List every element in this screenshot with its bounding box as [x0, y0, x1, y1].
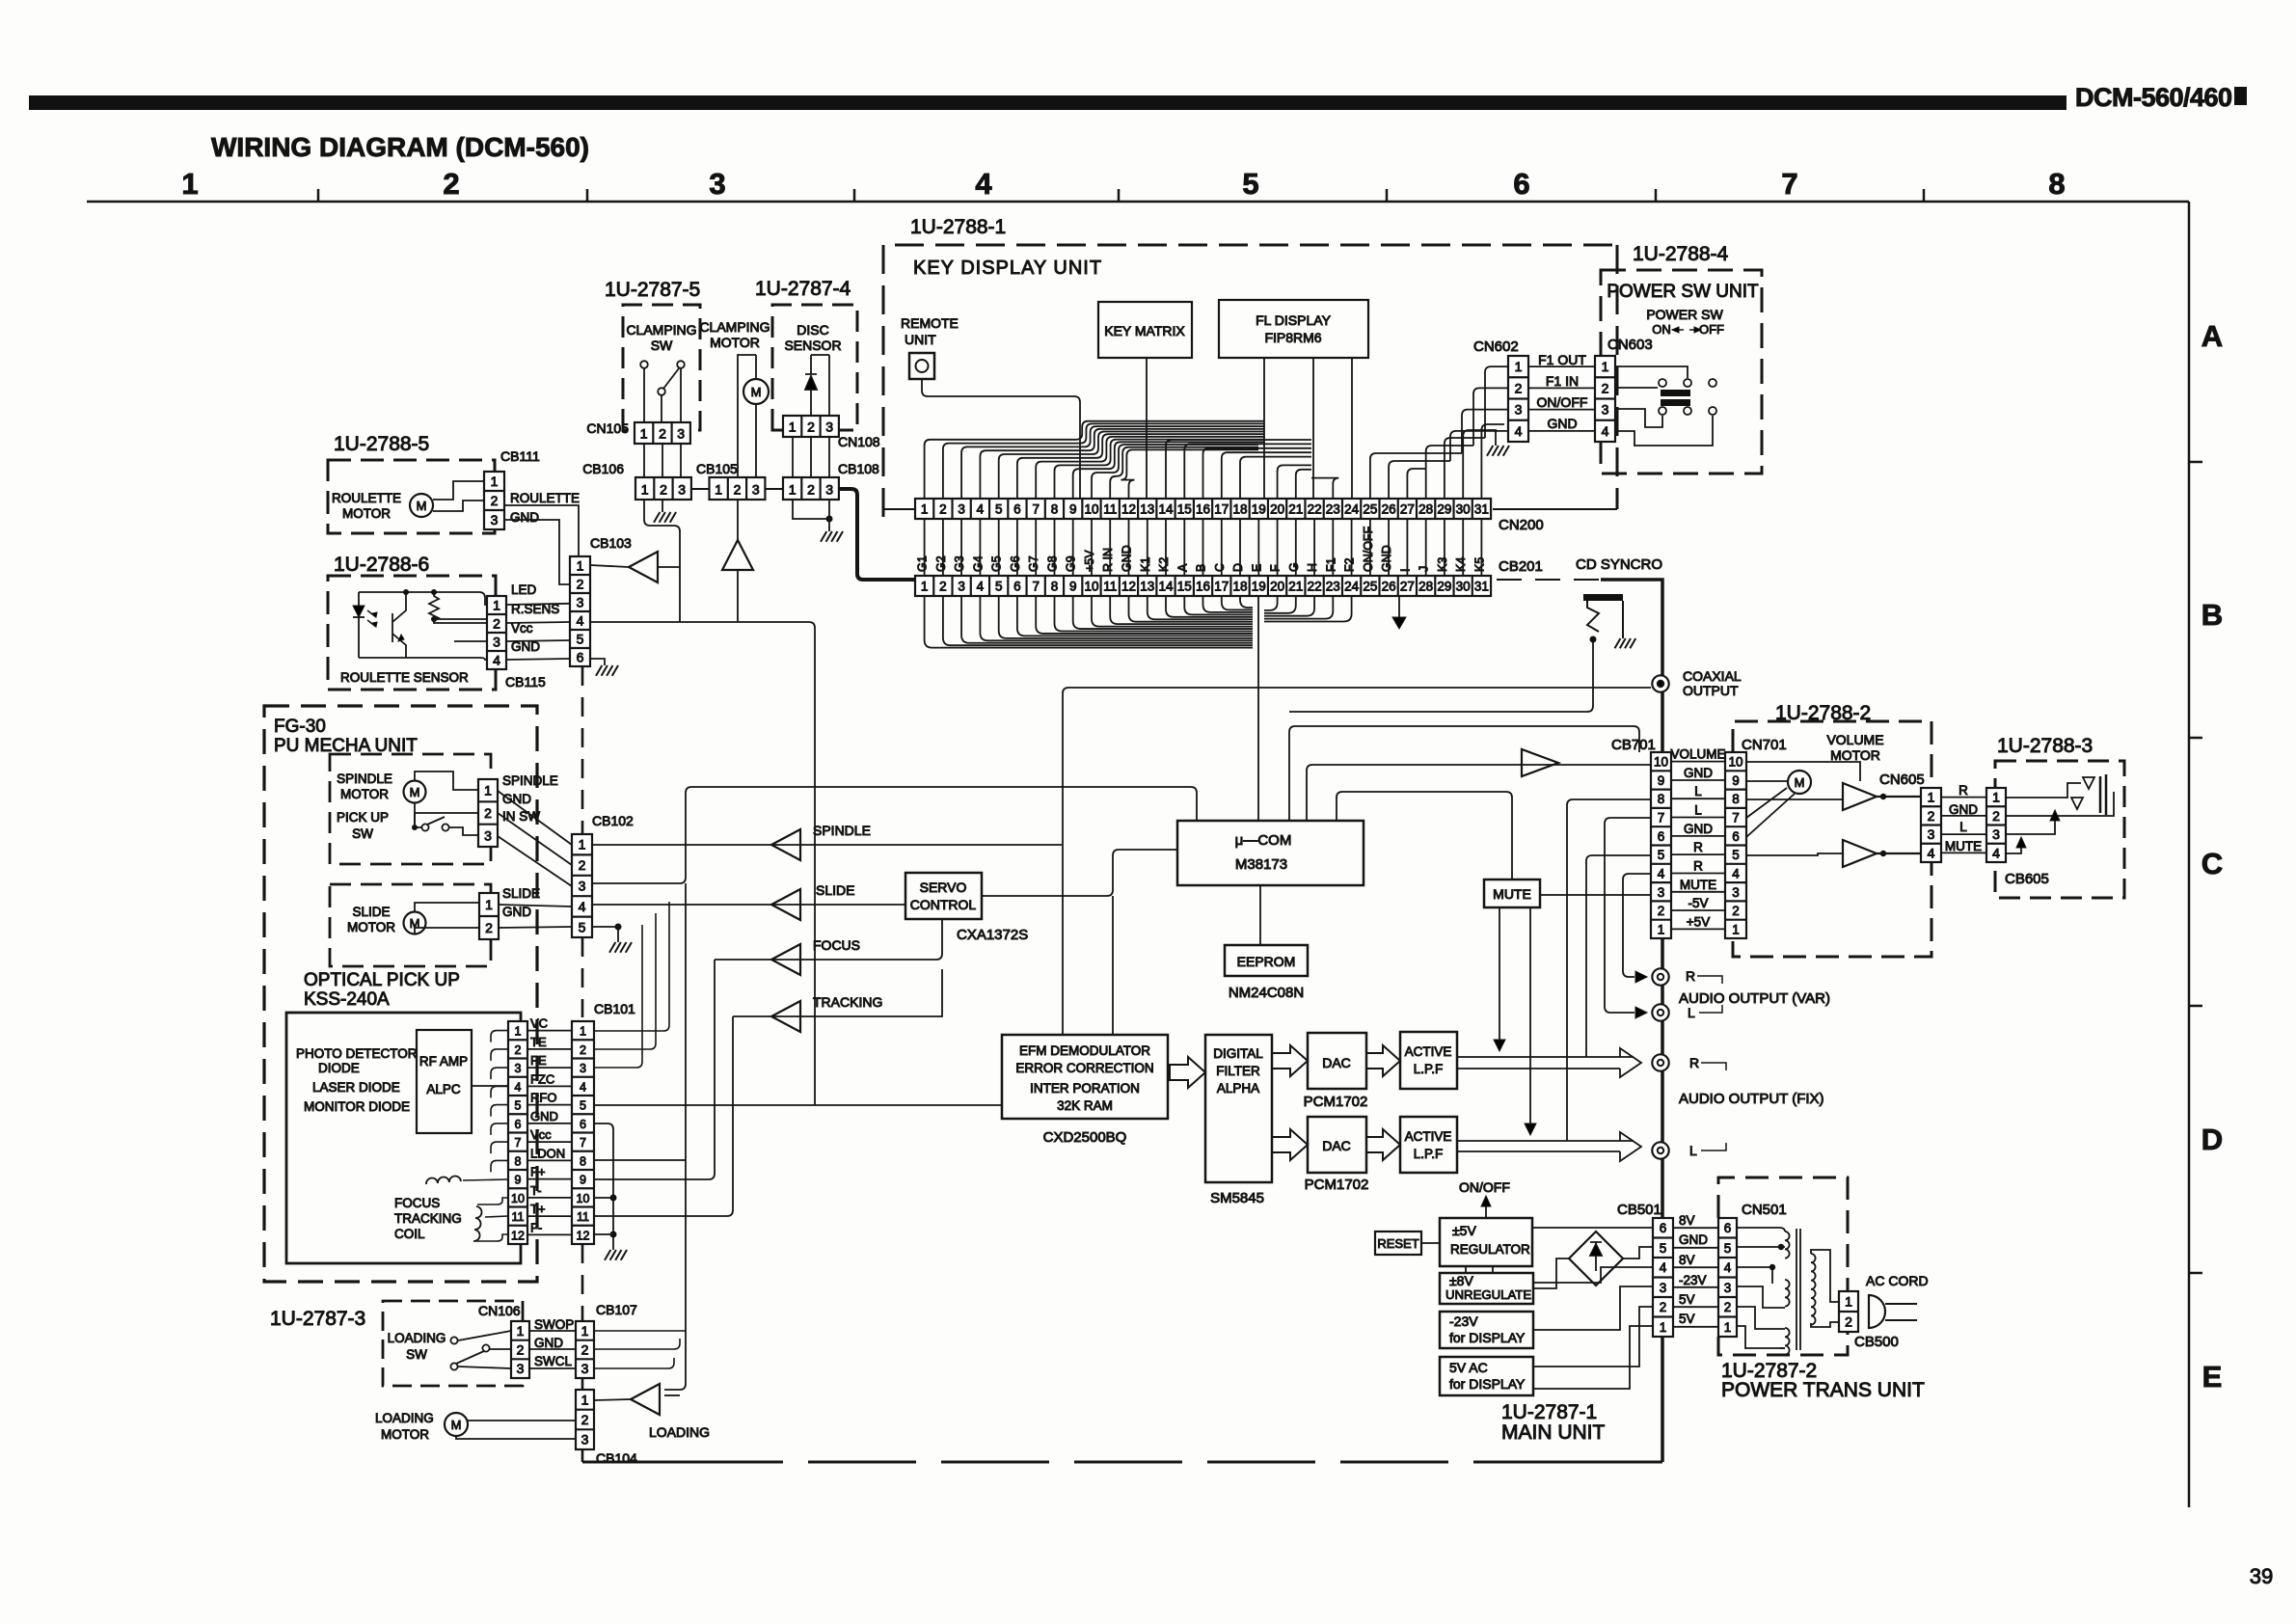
- svg-text:1: 1: [517, 1323, 525, 1339]
- svg-text:12: 12: [1121, 580, 1136, 594]
- svg-text:COIL: COIL: [394, 1227, 425, 1241]
- CB605 connector: [1986, 788, 2006, 862]
- svg-text:M: M: [410, 785, 420, 799]
- u-COM top lines going right: [1289, 726, 1639, 821]
- svg-text:CB501: CB501: [1617, 1202, 1661, 1218]
- svg-text:G3: G3: [953, 555, 966, 572]
- svg-text:E: E: [2202, 1360, 2223, 1394]
- svg-text:9: 9: [1069, 502, 1077, 517]
- svg-text:CB115: CB115: [505, 674, 546, 690]
- svg-text:F2: F2: [1343, 557, 1357, 572]
- svg-text:LOADING: LOADING: [375, 1411, 434, 1425]
- svg-text:2: 2: [580, 1043, 586, 1057]
- svg-text:L: L: [1688, 1005, 1695, 1020]
- amp triangle left of CB103: [629, 552, 658, 582]
- svg-text:2: 2: [581, 1342, 589, 1358]
- clamping motor leads: [738, 355, 756, 477]
- svg-text:11: 11: [1103, 580, 1117, 594]
- svg-text:ON/OFF: ON/OFF: [1537, 394, 1588, 410]
- svg-text:DISC: DISC: [797, 322, 828, 338]
- svg-text:K5: K5: [1472, 557, 1486, 572]
- svg-text:WIRING DIAGRAM (DCM-560): WIRING DIAGRAM (DCM-560): [211, 132, 589, 162]
- svg-text:3: 3: [1660, 1281, 1667, 1295]
- svg-text:AUDIO OUTPUT (VAR): AUDIO OUTPUT (VAR): [1679, 990, 1830, 1007]
- clamping switch symbol: [640, 361, 648, 368]
- servo right wire to u-COM elbow: [982, 850, 1177, 896]
- +-8V unregulate box: [1440, 1273, 1533, 1304]
- svg-text:2: 2: [939, 502, 947, 517]
- svg-text:VOLUME: VOLUME: [1826, 732, 1883, 747]
- right border line: [2188, 202, 2191, 1507]
- svg-text:1: 1: [921, 502, 929, 517]
- svg-text:CN108: CN108: [838, 434, 880, 449]
- svg-text:1: 1: [1992, 790, 2000, 805]
- svg-text:CB103: CB103: [590, 535, 632, 551]
- u-COM to EEPROM wire: [1259, 885, 1261, 945]
- R fix output lines: [1457, 1056, 1634, 1058]
- svg-text:VC: VC: [530, 1016, 548, 1031]
- svg-text:2: 2: [1658, 904, 1665, 918]
- svg-text:1: 1: [577, 558, 584, 574]
- volume amp triangle: [1522, 749, 1558, 776]
- svg-text:1: 1: [641, 482, 649, 498]
- KSS-240A box: [286, 1013, 521, 1263]
- loading motor wires: [468, 1420, 576, 1421]
- sensor Vcc wire: [454, 640, 487, 642]
- svg-text:31: 31: [1474, 502, 1489, 517]
- svg-text:CB108: CB108: [838, 461, 879, 476]
- vertical x705 clamping bus: [679, 530, 681, 622]
- svg-text:C: C: [1213, 563, 1227, 572]
- svg-text:SW: SW: [406, 1347, 427, 1362]
- svg-text:R: R: [1686, 968, 1695, 984]
- svg-text:OPTICAL PICK UP: OPTICAL PICK UP: [304, 970, 460, 990]
- svg-text:G6: G6: [1009, 555, 1022, 572]
- svg-text:3: 3: [1928, 826, 1935, 842]
- svg-text:3: 3: [491, 512, 499, 528]
- svg-text:REGULATOR: REGULATOR: [1450, 1242, 1530, 1257]
- svg-text:5V AC: 5V AC: [1449, 1360, 1488, 1375]
- svg-text:24: 24: [1344, 502, 1360, 517]
- svg-text:3: 3: [958, 502, 965, 517]
- wires CB501 to CN501: [1673, 1227, 1718, 1229]
- svg-text:-5V: -5V: [1688, 896, 1708, 910]
- svg-text:INTER PORATION: INTER PORATION: [1030, 1081, 1140, 1096]
- svg-text:CB701: CB701: [1611, 737, 1656, 753]
- svg-text:KEY MATRIX: KEY MATRIX: [1104, 323, 1185, 338]
- svg-text:6: 6: [1013, 580, 1021, 594]
- CB107 wires to corridor: [594, 1330, 686, 1332]
- svg-text:21: 21: [1288, 502, 1303, 517]
- svg-text:3: 3: [752, 482, 760, 498]
- svg-text:3: 3: [579, 879, 586, 894]
- svg-text:SPINDLE: SPINDLE: [502, 773, 558, 788]
- svg-text:RFO: RFO: [530, 1091, 556, 1105]
- svg-text:M: M: [417, 499, 427, 513]
- svg-text:1: 1: [1928, 790, 1935, 805]
- svg-text:10: 10: [1084, 502, 1098, 517]
- wire fan above CN200 pins 1-12: [925, 421, 1264, 499]
- servo control box: [905, 873, 982, 919]
- svg-text:39: 39: [2250, 1564, 2273, 1588]
- svg-text:1U-2788-5: 1U-2788-5: [334, 433, 429, 455]
- svg-text:SERVO: SERVO: [920, 880, 967, 895]
- svg-text:GND: GND: [530, 1109, 558, 1123]
- coax line from EFM corner to coax jack: [1063, 688, 1651, 1035]
- CB106 pin1 wire to bus: [644, 500, 680, 531]
- svg-text:A: A: [2201, 319, 2223, 353]
- svg-text:2: 2: [581, 1412, 589, 1427]
- VAR L feed from CB701 pin7: [1605, 818, 1651, 1013]
- svg-text:LDON: LDON: [530, 1146, 565, 1160]
- svg-text:for DISPLAY: for DISPLAY: [1449, 1330, 1526, 1345]
- svg-text:15: 15: [1177, 502, 1192, 517]
- svg-text:1: 1: [581, 1323, 589, 1339]
- wires CN602 to CN603: [1528, 365, 1595, 367]
- svg-text:T-: T-: [530, 1183, 542, 1198]
- svg-text:1: 1: [493, 598, 500, 613]
- MUTE box: [1484, 880, 1540, 907]
- wire roulette to CB103 pin1: [504, 505, 579, 556]
- EEPROM box: [1225, 945, 1308, 976]
- CN602 elbows to fan: [1485, 366, 1508, 438]
- CB103 pin4 horizontal bus to clamp area: [590, 622, 815, 1105]
- svg-text:1: 1: [789, 482, 797, 498]
- svg-text:4: 4: [1732, 867, 1740, 881]
- svg-text:3: 3: [678, 482, 686, 498]
- servo elbow down to EFM: [1112, 896, 1114, 1035]
- wire CB105 pin2 to amp below: [737, 500, 739, 540]
- key matrix box: [1098, 302, 1192, 358]
- bridge rectifier: [1569, 1232, 1623, 1286]
- audio output VAR jacks: [1652, 968, 1668, 985]
- svg-text:FZC: FZC: [530, 1071, 554, 1086]
- wire remote unit to CN200 pin10: [922, 379, 1080, 499]
- svg-text:1: 1: [1732, 922, 1740, 936]
- svg-text:OFF: OFF: [1699, 322, 1724, 337]
- top black bar: [29, 95, 2066, 110]
- disc sensor leads: [811, 355, 829, 416]
- CN501 to transformer wires: [1736, 1228, 1785, 1232]
- volume amps: [1843, 783, 1921, 810]
- svg-text:CN605: CN605: [1879, 771, 1925, 788]
- svg-text:L: L: [1959, 820, 1967, 834]
- right link CN200 to box edge: [1493, 508, 1617, 510]
- CB102 pin3 up to u-COM top via corridor: [592, 787, 1197, 883]
- svg-text:CB106: CB106: [582, 461, 624, 476]
- svg-text:1U-2787-1: 1U-2787-1: [1501, 1401, 1597, 1423]
- svg-text:1: 1: [640, 426, 648, 442]
- coil wires to pins 9-12: [463, 1179, 508, 1180]
- svg-text:2: 2: [659, 426, 666, 442]
- svg-text:2: 2: [807, 482, 815, 498]
- svg-text:+5V: +5V: [1687, 914, 1710, 929]
- power switch wires: [1615, 366, 1688, 378]
- svg-text:VOLUME: VOLUME: [1670, 747, 1725, 762]
- svg-text:G2: G2: [934, 555, 948, 572]
- svg-text:R: R: [1689, 1055, 1699, 1070]
- svg-text:RF AMP: RF AMP: [419, 1054, 468, 1069]
- sensor internals: phototransistor: [392, 592, 406, 658]
- svg-text:17: 17: [1214, 502, 1229, 517]
- svg-text:4: 4: [1992, 845, 2000, 860]
- svg-text:FG-30: FG-30: [274, 717, 326, 737]
- svg-text:26: 26: [1382, 502, 1396, 517]
- spindle motor wires: [415, 771, 478, 790]
- EFM demodulator box: [1002, 1035, 1168, 1119]
- svg-text:GND: GND: [1380, 545, 1393, 572]
- svg-text:5: 5: [580, 1099, 586, 1113]
- CB500 connector: [1839, 1291, 1858, 1332]
- svg-text:14: 14: [1158, 502, 1174, 517]
- svg-text:4: 4: [579, 899, 586, 914]
- RESET box: [1375, 1232, 1421, 1255]
- open arrows between chain boxes: [1170, 1057, 1205, 1088]
- svg-text:EEPROM: EEPROM: [1237, 954, 1296, 969]
- digital filter box: [1205, 1035, 1272, 1182]
- svg-text:2: 2: [485, 920, 493, 935]
- volume motor symbol: [1788, 771, 1811, 794]
- svg-text:3: 3: [581, 1361, 589, 1376]
- svg-text:2: 2: [484, 805, 492, 821]
- svg-text:COAXIAL: COAXIAL: [1683, 668, 1742, 684]
- svg-text:OUTPUT: OUTPUT: [1683, 683, 1739, 698]
- svg-text:R: R: [1693, 840, 1703, 854]
- CB106 pin2 ground: [662, 500, 663, 512]
- svg-text:19: 19: [1252, 502, 1266, 517]
- power trans unit 1U-2787-2 dashed box: [1718, 1177, 1848, 1355]
- svg-text:2: 2: [1845, 1314, 1852, 1330]
- svg-text:3: 3: [709, 167, 725, 201]
- svg-text:TE: TE: [530, 1035, 547, 1049]
- svg-text:SLIDE: SLIDE: [502, 886, 540, 901]
- svg-text:21: 21: [1288, 580, 1303, 594]
- svg-text:2: 2: [515, 1043, 522, 1057]
- main unit bottom edge dashed: [582, 1461, 675, 1464]
- svg-text:-23V: -23V: [1679, 1273, 1707, 1287]
- svg-text:11: 11: [577, 1210, 589, 1224]
- svg-text:CN501: CN501: [1742, 1202, 1787, 1218]
- svg-text:SPINDLE: SPINDLE: [337, 771, 392, 786]
- svg-text:2: 2: [660, 482, 667, 498]
- svg-text:R IN: R IN: [1101, 548, 1115, 572]
- svg-text:POWER SW UNIT: POWER SW UNIT: [1607, 282, 1759, 302]
- slide line CB102 pin4 to servo: [592, 904, 905, 906]
- +-5V regulator box: [1440, 1218, 1532, 1266]
- svg-text:MUTE: MUTE: [1493, 886, 1531, 902]
- svg-text:1: 1: [491, 474, 499, 489]
- svg-text:CB107: CB107: [596, 1302, 637, 1317]
- svg-text:6: 6: [577, 650, 584, 665]
- svg-text:2: 2: [939, 580, 947, 594]
- svg-text:K3: K3: [1436, 557, 1449, 572]
- svg-text:1U-2788-6: 1U-2788-6: [334, 554, 429, 576]
- wires sensor connector to CB103: [506, 604, 570, 605]
- svg-text:4: 4: [1928, 845, 1935, 860]
- svg-text:1U-2788-1: 1U-2788-1: [910, 216, 1006, 238]
- svg-text:CLAMPING: CLAMPING: [626, 322, 696, 338]
- focus coil symbol: [426, 1176, 461, 1184]
- svg-text:10: 10: [511, 1192, 525, 1205]
- svg-text:μ—COM: μ—COM: [1235, 832, 1292, 849]
- svg-text:TRACKING: TRACKING: [394, 1211, 462, 1226]
- svg-text:R: R: [1693, 859, 1703, 874]
- svg-text:27: 27: [1400, 580, 1415, 594]
- svg-text:L.P.F: L.P.F: [1414, 1147, 1444, 1161]
- power wires to CB501: [1532, 1227, 1653, 1229]
- svg-text:5: 5: [995, 502, 1003, 517]
- svg-text:20: 20: [1270, 502, 1284, 517]
- svg-text:GND: GND: [534, 1336, 563, 1350]
- svg-text:1U-2788-4: 1U-2788-4: [1633, 243, 1729, 265]
- svg-text:10: 10: [1654, 755, 1668, 770]
- volume motor leads from CN701: [1746, 762, 1860, 781]
- svg-text:25: 25: [1363, 502, 1377, 517]
- mute drops to LPF outputs with arrows: [1499, 907, 1500, 1040]
- svg-text:4: 4: [1660, 1260, 1667, 1275]
- svg-text:DCM-560/460: DCM-560/460: [2075, 83, 2232, 112]
- svg-text:G4: G4: [971, 555, 985, 572]
- svg-text:T+: T+: [530, 1202, 546, 1216]
- svg-text:MOTOR: MOTOR: [381, 1427, 429, 1442]
- svg-text:6: 6: [1658, 829, 1665, 844]
- RF AMP to pin4: [472, 1085, 508, 1087]
- svg-text:5V: 5V: [1679, 1292, 1695, 1307]
- spindle amp: [771, 829, 800, 860]
- svg-text:7: 7: [515, 1136, 522, 1150]
- svg-text:CB101: CB101: [594, 1001, 635, 1016]
- svg-text:12: 12: [511, 1229, 525, 1242]
- svg-text:GND: GND: [1949, 802, 1978, 817]
- svg-text:4: 4: [1515, 423, 1523, 439]
- svg-text:17: 17: [1214, 580, 1229, 594]
- svg-text:4: 4: [577, 613, 584, 629]
- svg-text:CD SYNCRO: CD SYNCRO: [1576, 556, 1662, 573]
- svg-text:30: 30: [1456, 502, 1471, 517]
- svg-text:D: D: [2201, 1123, 2223, 1156]
- svg-text:PICK UP: PICK UP: [337, 810, 389, 825]
- svg-text:MUTE: MUTE: [1945, 839, 1982, 853]
- svg-text:F1 OUT: F1 OUT: [1538, 352, 1586, 367]
- svg-text:5: 5: [579, 919, 586, 934]
- svg-text:CN106: CN106: [478, 1303, 521, 1318]
- svg-text:FL DISPLAY: FL DISPLAY: [1256, 312, 1331, 328]
- svg-text:PCM1702: PCM1702: [1304, 1094, 1368, 1110]
- svg-text:LASER DIODE: LASER DIODE: [312, 1080, 400, 1095]
- svg-text:GND: GND: [1679, 1232, 1708, 1247]
- svg-text:for DISPLAY: for DISPLAY: [1449, 1376, 1526, 1392]
- svg-text:7: 7: [1032, 502, 1040, 517]
- svg-text:1U-2788-3: 1U-2788-3: [1997, 735, 2093, 757]
- svg-text:C: C: [2201, 847, 2223, 880]
- svg-text:CB105: CB105: [696, 461, 738, 476]
- FL display box: [1219, 300, 1368, 358]
- pickup connector 12pin: [508, 1021, 527, 1244]
- svg-text:2: 2: [1732, 904, 1740, 918]
- wires CN105 to CB106: [643, 444, 645, 477]
- svg-text:1U-2787-5: 1U-2787-5: [605, 279, 700, 301]
- svg-text:L: L: [1694, 784, 1702, 798]
- svg-text:DAC: DAC: [1322, 1055, 1351, 1070]
- svg-text:REMOTE: REMOTE: [901, 315, 959, 331]
- svg-text:28: 28: [1418, 580, 1433, 594]
- svg-text:G7: G7: [1027, 555, 1040, 572]
- svg-text:13: 13: [1140, 502, 1154, 517]
- sensor internals: resistor: [429, 592, 439, 621]
- links CB106-CB105-CB108: [691, 488, 709, 490]
- svg-text:5: 5: [1724, 1241, 1732, 1256]
- disc sensor diode: [805, 355, 817, 416]
- svg-text:NM24C08N: NM24C08N: [1229, 985, 1304, 1001]
- svg-text:CN701: CN701: [1742, 737, 1787, 753]
- svg-text:IN SW: IN SW: [502, 809, 540, 824]
- svg-text:CB111: CB111: [500, 448, 540, 464]
- main unit right edge top corner: [1601, 580, 1662, 1462]
- svg-text:G8: G8: [1046, 555, 1060, 572]
- RF AMP ALPC box: [417, 1030, 472, 1133]
- svg-text:FOCUS: FOCUS: [813, 937, 860, 953]
- svg-text:2: 2: [1602, 380, 1609, 395]
- focus line: [715, 919, 942, 960]
- wire fan above CN200 pins 14-23 to FL display drops: [1166, 440, 1311, 499]
- svg-text:4: 4: [1602, 423, 1609, 439]
- svg-text:MOTOR: MOTOR: [347, 920, 395, 934]
- svg-text:POWER SW: POWER SW: [1646, 307, 1723, 322]
- svg-text:GND: GND: [1547, 416, 1577, 431]
- svg-text:11: 11: [1103, 502, 1117, 517]
- wires CB701 to CN701: [1671, 761, 1725, 763]
- svg-text:8: 8: [1051, 580, 1059, 594]
- svg-text:2: 2: [734, 482, 742, 498]
- svg-text:4: 4: [975, 167, 992, 201]
- CN108 connector: [783, 416, 839, 437]
- wires spindle conn to CB102: [498, 791, 572, 845]
- svg-text:K2: K2: [1157, 557, 1171, 572]
- svg-text:M: M: [451, 1418, 462, 1432]
- slide motor wires: [415, 903, 479, 911]
- transformer primary coils: [1785, 1232, 1790, 1259]
- wires FL display to CN200: [1263, 358, 1265, 499]
- svg-text:FOCUS: FOCUS: [394, 1196, 440, 1210]
- left link to key display box edge: [883, 508, 915, 510]
- svg-text:3: 3: [677, 426, 685, 442]
- svg-text:F1 IN: F1 IN: [1546, 373, 1579, 389]
- svg-text:1: 1: [484, 783, 492, 798]
- svg-text:22: 22: [1308, 502, 1322, 517]
- svg-text:B: B: [1195, 564, 1208, 572]
- svg-text:1: 1: [1845, 1294, 1852, 1310]
- svg-text:FE: FE: [530, 1053, 547, 1068]
- svg-text:3: 3: [1515, 402, 1523, 418]
- svg-text:KSS-240A: KSS-240A: [304, 989, 390, 1010]
- svg-text:TRACKING: TRACKING: [813, 994, 882, 1010]
- svg-text:15: 15: [1177, 580, 1192, 594]
- svg-text:UNIT: UNIT: [905, 332, 936, 347]
- tracking coil symbol: [473, 1206, 482, 1241]
- svg-text:SW: SW: [352, 826, 373, 841]
- svg-text:G: G: [1287, 562, 1301, 572]
- svg-text:E: E: [1250, 564, 1263, 572]
- wire key matrix to CN200 pin13: [1146, 358, 1148, 499]
- svg-text:CXA1372S: CXA1372S: [957, 927, 1028, 943]
- spindle connector 3pin: [478, 779, 498, 847]
- sensor GND rail: [359, 658, 487, 660]
- svg-text:10: 10: [1084, 580, 1098, 594]
- CB102 pin5 gnd: [615, 924, 622, 931]
- svg-text:MOTOR: MOTOR: [340, 787, 389, 801]
- up amp triangle for clamp motor: [722, 540, 753, 570]
- svg-text:PHOTO DETECTOR: PHOTO DETECTOR: [296, 1046, 418, 1061]
